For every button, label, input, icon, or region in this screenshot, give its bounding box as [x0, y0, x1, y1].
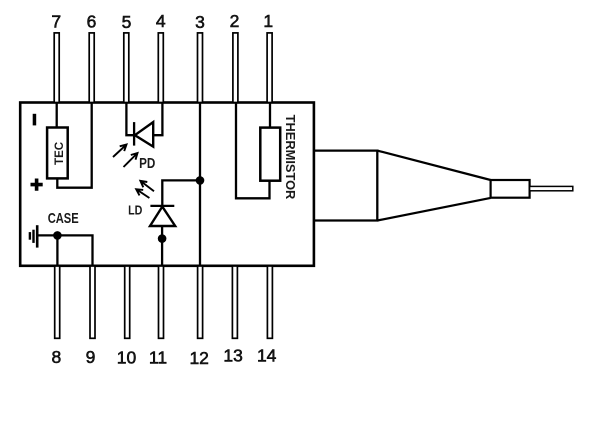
LD light arrow 1	[140, 181, 154, 191]
svg-text:9: 9	[86, 347, 96, 367]
TEC minus terminal	[33, 114, 37, 126]
LD diode triangle	[150, 207, 175, 226]
svg-text:THERMISTOR: THERMISTOR	[283, 115, 298, 200]
pin 2	[233, 33, 238, 103]
fiber ferrule	[491, 180, 530, 198]
pin 8	[55, 266, 60, 338]
PD light arrow 2	[124, 153, 138, 167]
junction dot pin3 line	[196, 176, 205, 185]
wire pin3 to pin12 vertical	[199, 103, 201, 266]
svg-text:10: 10	[117, 347, 137, 367]
pin 10	[125, 266, 130, 338]
pin 11	[159, 266, 164, 338]
svg-text:5: 5	[122, 12, 132, 32]
wire LD anode to pin 11	[161, 226, 163, 266]
pin 5	[124, 33, 129, 103]
svg-text:2: 2	[230, 11, 240, 31]
svg-text:TEC: TEC	[52, 141, 66, 165]
pin 7	[54, 33, 59, 103]
svg-text:LD: LD	[128, 203, 143, 218]
package body	[20, 103, 314, 266]
thermistor rectangle	[260, 128, 280, 181]
pin 6	[89, 33, 94, 103]
svg-text:4: 4	[156, 11, 166, 31]
svg-text:6: 6	[87, 12, 97, 32]
svg-text:8: 8	[52, 347, 62, 367]
pin 3	[198, 33, 203, 103]
svg-text:14: 14	[257, 345, 277, 365]
svg-text:11: 11	[149, 347, 167, 367]
PD cathode bar	[133, 122, 135, 146]
fiber taper	[377, 151, 490, 221]
junction dot LD anode	[158, 234, 167, 243]
CASE ground symbol bars	[36, 225, 39, 247]
svg-text:13: 13	[223, 345, 242, 365]
wire pin1 to thermistor top	[269, 103, 271, 128]
junction dot case	[53, 231, 62, 240]
wire pin5 to PD cathode	[126, 103, 134, 136]
wire PD anode to pin 4	[153, 103, 162, 136]
LD cathode bar	[150, 205, 174, 207]
svg-text:3: 3	[195, 12, 205, 32]
PD diode triangle	[135, 122, 153, 147]
pin 12	[198, 266, 203, 338]
LD light arrow 2	[136, 189, 149, 198]
wire TEC bottom to pin 6	[57, 103, 91, 188]
pin 4	[158, 33, 163, 103]
TEC plus terminal	[31, 179, 43, 191]
pin 13	[232, 266, 237, 338]
wire case junction to pin 8	[56, 235, 58, 265]
TEC rectangle	[47, 128, 68, 179]
wire pin2 to thermistor bottom	[236, 103, 270, 199]
fiber flange	[314, 151, 377, 221]
svg-text:7: 7	[51, 12, 61, 32]
svg-text:12: 12	[189, 348, 208, 368]
wire junction to LD cathode	[162, 180, 200, 206]
PD light arrow 1	[113, 145, 127, 158]
pin 14	[267, 266, 272, 338]
fiber pigtail	[530, 186, 573, 190]
svg-text:CASE: CASE	[48, 211, 79, 227]
pin 1	[267, 33, 272, 103]
pin 9	[90, 266, 95, 338]
svg-text:PD: PD	[139, 156, 155, 172]
wire pin7 to TEC top	[56, 103, 58, 128]
wire ground to pin9	[38, 235, 92, 265]
svg-text:1: 1	[263, 11, 273, 31]
